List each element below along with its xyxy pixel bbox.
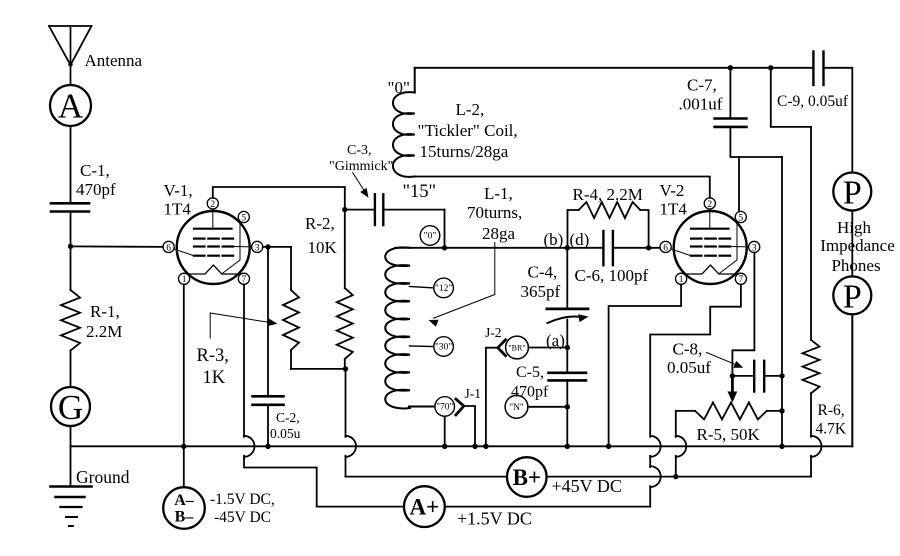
svg-text:C-1,: C-1, (80, 161, 110, 180)
svg-text:28ga: 28ga (482, 224, 516, 243)
svg-text:A: A (58, 87, 84, 126)
svg-text:1T4: 1T4 (164, 200, 192, 219)
svg-text:+45V DC: +45V DC (552, 476, 622, 496)
svg-text:"BR": "BR" (508, 344, 525, 353)
svg-text:C-2,: C-2, (276, 410, 300, 425)
svg-text:15turns/28ga: 15turns/28ga (420, 142, 509, 161)
svg-text:70turns,: 70turns, (467, 203, 522, 222)
svg-text:1T4: 1T4 (660, 200, 688, 219)
svg-text:High: High (837, 218, 872, 237)
svg-text:6: 6 (663, 243, 668, 253)
svg-text:R-1,: R-1, (90, 302, 120, 321)
svg-text:(a): (a) (546, 331, 565, 350)
svg-text:10K: 10K (308, 238, 338, 257)
svg-text:-1.5V DC,: -1.5V DC, (210, 491, 275, 508)
svg-text:Ground: Ground (76, 467, 130, 487)
svg-text:"0": "0" (388, 78, 410, 97)
svg-text:"N": "N" (509, 403, 524, 413)
svg-text:C-6, 100pf: C-6, 100pf (575, 266, 649, 285)
svg-text:470pf: 470pf (511, 384, 549, 401)
svg-text:C-9, 0.05uf: C-9, 0.05uf (777, 93, 849, 110)
svg-text:C-4,: C-4, (528, 263, 558, 282)
svg-text:"30": "30" (435, 343, 452, 353)
svg-text:B+: B+ (513, 465, 541, 490)
svg-text:P: P (843, 278, 862, 315)
svg-text:B–: B– (175, 509, 195, 526)
svg-text:Antenna: Antenna (85, 51, 143, 70)
svg-text:"Tickler" Coil,: "Tickler" Coil, (418, 121, 518, 140)
svg-text:5: 5 (241, 213, 246, 223)
svg-text:L-2,: L-2, (456, 100, 485, 119)
svg-text:Impedance: Impedance (820, 236, 895, 255)
svg-text:C-5,: C-5, (516, 364, 544, 381)
svg-text:P: P (843, 175, 862, 212)
svg-text:R-5, 50K: R-5, 50K (697, 425, 761, 444)
svg-text:1K: 1K (203, 368, 226, 388)
svg-text:V-2: V-2 (660, 181, 685, 200)
svg-text:L-1,: L-1, (484, 184, 513, 203)
svg-text:R-2,: R-2, (305, 214, 335, 233)
svg-text:C-7,: C-7, (687, 76, 717, 95)
svg-text:R-4, 2.2M: R-4, 2.2M (573, 185, 643, 204)
svg-text:0.05uf: 0.05uf (667, 358, 711, 377)
svg-text:J-1: J-1 (465, 386, 482, 401)
svg-text:.001uf: .001uf (679, 95, 723, 114)
svg-text:R-3,: R-3, (197, 346, 229, 366)
svg-text:(b): (b) (544, 230, 564, 249)
svg-text:"70": "70" (436, 403, 453, 413)
svg-text:Phones: Phones (831, 256, 880, 275)
svg-text:-45V DC: -45V DC (214, 509, 271, 526)
svg-text:(d): (d) (570, 230, 590, 249)
svg-text:3: 3 (255, 243, 260, 253)
svg-text:R-6,: R-6, (818, 402, 845, 419)
svg-text:C-8,: C-8, (673, 340, 703, 359)
svg-text:0.05u: 0.05u (270, 426, 301, 441)
svg-text:"12": "12" (435, 284, 452, 294)
svg-text:G: G (58, 388, 83, 427)
svg-text:A+: A+ (410, 495, 440, 520)
svg-text:"0": "0" (424, 232, 437, 242)
svg-text:"Gimmick": "Gimmick" (329, 159, 393, 174)
svg-text:+1.5V DC: +1.5V DC (457, 509, 532, 529)
svg-text:2.2M: 2.2M (86, 322, 122, 341)
svg-text:J-2: J-2 (485, 325, 502, 340)
svg-text:5: 5 (738, 213, 743, 223)
svg-text:2: 2 (707, 200, 712, 210)
svg-text:V-1,: V-1, (164, 181, 193, 200)
svg-text:365pf: 365pf (521, 282, 561, 301)
svg-text:470pf: 470pf (76, 180, 116, 199)
svg-text:"15": "15" (403, 182, 437, 202)
svg-text:6: 6 (166, 243, 171, 253)
svg-text:C-3,: C-3, (347, 143, 372, 158)
svg-text:A–: A– (174, 492, 195, 509)
svg-text:4.7K: 4.7K (816, 421, 847, 438)
svg-text:2: 2 (210, 200, 215, 210)
